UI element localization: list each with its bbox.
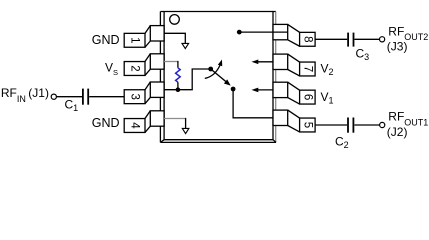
svg-text:C3: C3	[356, 47, 370, 63]
wire pin5 to C2	[315, 124, 347, 126]
capacitor C1	[83, 89, 88, 105]
ground symbol pin4	[182, 128, 189, 133]
port J3 circle	[380, 37, 385, 42]
wire switch throw to pin5	[233, 89, 273, 118]
control arrow from pin7 (V2)	[255, 61, 274, 63]
svg-text:5: 5	[301, 122, 313, 128]
svg-text:(J2): (J2)	[387, 125, 408, 139]
wire C1 to pin3	[89, 96, 124, 98]
junction node (resistor to pin3 net)	[176, 87, 181, 92]
svg-text:GND: GND	[92, 116, 120, 130]
svg-text:(J3): (J3)	[387, 40, 408, 54]
svg-text:7: 7	[301, 66, 313, 72]
switch lever arm with arrowhead	[211, 69, 226, 82]
switch pole node	[208, 67, 213, 72]
pin 4	[124, 111, 164, 133]
port J2 circle	[380, 122, 385, 127]
pin 3	[124, 82, 164, 104]
wire pin8 to C3	[315, 38, 347, 40]
resistor (blue zigzag)	[176, 68, 181, 82]
ground symbol pin1	[182, 43, 189, 48]
pin 1	[124, 26, 164, 48]
svg-text:1: 1	[129, 37, 141, 43]
pin 6	[273, 82, 315, 104]
pin 1 indicator circle	[170, 15, 180, 25]
control arrow from pin6 (V1)	[255, 89, 274, 91]
port J1 circle	[51, 94, 56, 99]
switch motion arc arrow	[205, 62, 221, 78]
wire J1 to C1	[57, 96, 82, 98]
wire C3 to J3	[355, 38, 380, 40]
svg-text:8: 8	[301, 36, 313, 42]
IC package U1 outer body	[160, 12, 276, 143]
pin 5	[273, 110, 315, 132]
wire resistor top lead	[177, 61, 179, 68]
svg-text:VS: VS	[105, 61, 118, 77]
wire pin1 to ground	[164, 33, 185, 43]
wire pin3 to switch pole	[164, 69, 211, 90]
svg-text:C2: C2	[335, 135, 349, 148]
pin 7	[273, 54, 315, 76]
node on pin8 net	[237, 30, 242, 35]
pin 8	[273, 24, 315, 46]
wire pin4 to ground (gray)	[164, 118, 186, 120]
switch throw node (to pin 5)	[231, 87, 236, 92]
svg-text:2: 2	[129, 65, 141, 71]
IC package U1 right wall (gray)	[275, 12, 277, 143]
svg-text:3: 3	[129, 93, 141, 99]
svg-text:GND: GND	[92, 33, 120, 47]
pin 2	[124, 54, 164, 76]
svg-text:C1: C1	[65, 97, 79, 113]
capacitor C3	[348, 33, 353, 47]
wire node to pin8	[239, 31, 288, 33]
svg-text:V1: V1	[321, 90, 334, 106]
wire pin4 ground stem	[185, 118, 187, 128]
svg-text:6: 6	[301, 94, 313, 100]
IC package U1 inner face	[160, 12, 276, 143]
wire resistor bottom lead	[177, 82, 179, 90]
wire C2 to J2	[354, 124, 379, 126]
svg-text:RFIN (J1): RFIN (J1)	[1, 86, 49, 104]
svg-text:4: 4	[129, 122, 141, 129]
wire pin2 Vs (gray)	[164, 61, 178, 63]
capacitor C2	[348, 118, 353, 133]
svg-text:V2: V2	[321, 62, 334, 78]
